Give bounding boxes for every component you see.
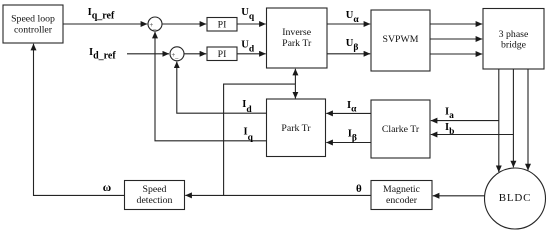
box Speed detection (125, 181, 185, 210)
wire Iq_ref: controller to summing junction J1 (63, 23, 147, 25)
wire SVPWM to bridge (top) (430, 23, 482, 25)
summing junction J2 (170, 47, 184, 63)
svg-text:Iβ: Iβ (348, 128, 357, 143)
box Clarke Tr (371, 100, 430, 158)
wire theta: encoder to speed detection (185, 194, 371, 196)
svg-text:Inverse: Inverse (282, 27, 311, 38)
wire SVPWM to bridge (bottom) (430, 53, 482, 55)
svg-text:Ia: Ia (445, 107, 454, 121)
svg-text:Speed: Speed (143, 184, 167, 195)
wire bridge phase c down to BLDC (527, 69, 529, 170)
circle BLDC motor (485, 168, 546, 229)
box PI (d axis) (207, 47, 237, 61)
wire theta branch up to transforms (224, 84, 296, 195)
box Park Tr (267, 99, 326, 157)
svg-text:Clarke Tr: Clarke Tr (382, 124, 420, 135)
svg-text:Iα: Iα (347, 100, 357, 115)
wire SVPWM to bridge (middle) (430, 38, 482, 40)
wire I_beta: Clarke to Park (326, 142, 371, 144)
wire BLDC to Magnetic encoder (433, 195, 485, 197)
wire theta into Park (down arrow) (294, 84, 296, 98)
wire omega: speed detection to controller (34, 44, 125, 196)
svg-text:Ud: Ud (241, 40, 255, 55)
wire U_alpha: Inverse Park to SVPWM (327, 23, 370, 25)
svg-text:controller: controller (14, 24, 53, 35)
svg-text:Uβ: Uβ (346, 38, 359, 53)
svg-text:bridge: bridge (501, 40, 527, 51)
wire I_a tap to Clarke (431, 120, 499, 122)
svg-text:Park Tr: Park Tr (282, 38, 312, 49)
wire theta into Inverse Park (up arrow) (294, 69, 296, 84)
svg-text:SVPWM: SVPWM (383, 34, 419, 45)
svg-text:encoder: encoder (386, 195, 418, 206)
svg-text:PI: PI (218, 49, 227, 60)
svg-text:Uq: Uq (241, 7, 255, 22)
wire bridge phase b down to BLDC (512, 69, 514, 167)
svg-text:Magnetic: Magnetic (383, 184, 421, 195)
svg-text:Park Tr: Park Tr (281, 123, 311, 134)
wire PI2 to Inverse Park (237, 53, 266, 55)
wire I_q feedback: Park to J1 (155, 32, 267, 141)
box Inverse Park Tr (267, 8, 328, 68)
box Magnetic encoder (371, 181, 432, 210)
svg-text:ω: ω (103, 182, 111, 194)
wire J2 to PI2 (184, 53, 206, 55)
svg-text:Uα: Uα (346, 10, 360, 25)
svg-text:Id: Id (242, 99, 252, 115)
svg-text:Speed loop: Speed loop (11, 14, 55, 25)
box Speed loop controller (3, 5, 63, 43)
svg-text:BLDC: BLDC (499, 192, 532, 204)
wire Id_ref input to summing junction J2 (127, 53, 169, 55)
svg-text:θ: θ (356, 183, 362, 195)
wire I_alpha: Clarke to Park (326, 112, 371, 114)
box SVPWM (371, 10, 430, 71)
wire U_beta: Inverse Park to SVPWM (327, 53, 370, 55)
svg-text:3 phase: 3 phase (499, 29, 529, 40)
wire I_b tap to Clarke (431, 134, 514, 136)
svg-text:Id_ref: Id_ref (89, 47, 116, 61)
wire bridge phase a down to BLDC (498, 69, 500, 172)
svg-text:detection: detection (137, 195, 173, 206)
wire J1 to PI1 (162, 23, 206, 25)
wire PI1 to Inverse Park (237, 23, 266, 25)
box PI (q axis) (207, 18, 237, 32)
box 3 phase bridge (483, 9, 544, 70)
svg-text:PI: PI (218, 19, 227, 30)
summing junction J1 (148, 17, 162, 33)
wire I_d feedback: Park to J2 (177, 62, 267, 114)
svg-text:Iq_ref: Iq_ref (88, 7, 115, 21)
